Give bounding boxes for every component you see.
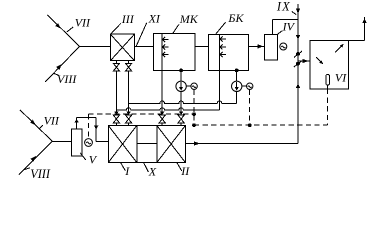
arrow VI outlet up (362, 18, 366, 23)
control line riser to VI sensor (dashed) (327, 89, 329, 125)
tank divider right (156, 126, 158, 163)
apparatus III box (110, 34, 134, 61)
motor M1 under MK (191, 83, 197, 89)
wire top input VII diagonal (48, 15, 80, 46)
control line D horizontal (dashed) (194, 124, 328, 126)
apparatus III cross (110, 34, 134, 61)
tank divider left (136, 126, 138, 163)
junction tick and node on IX riser lower (294, 61, 302, 67)
stem drop 3 into tank (161, 123, 163, 126)
wire bottom input VII diagonal (20, 110, 52, 141)
label I (121, 163, 131, 178)
temperature sensor in VI (326, 74, 330, 89)
wire V riser top horizontal (77, 117, 97, 119)
svg-text:IX: IX (276, 0, 291, 14)
valve V4 on drop 2 (126, 115, 132, 123)
BK inlet arrow 2 (220, 44, 226, 49)
pump P2 under BK (232, 81, 242, 91)
label VII (top) (67, 16, 91, 32)
label BK (215, 11, 244, 35)
label XI (pipe between III and MK) (136, 11, 161, 46)
node MK bottom outlet (179, 69, 183, 73)
wire bottom junction to pasteurizer V (52, 140, 71, 142)
MK inlet arrow 1 (163, 37, 169, 42)
svg-text:МК: МК (179, 12, 199, 26)
wire branch into VI with arrow (298, 59, 310, 63)
label VI (335, 71, 347, 85)
valve V3 on drop 1 (113, 115, 119, 123)
wire pump P1 to motor M1 (186, 85, 191, 87)
label MK (173, 12, 199, 33)
valve V6 on drop 4 (178, 115, 184, 123)
label IX (276, 0, 296, 15)
wire BK to IV with arrow (249, 44, 265, 48)
arrow drop 3 (160, 112, 165, 115)
section X midline (137, 142, 157, 144)
control line B vertical from motor M2 (dashed) (249, 90, 251, 126)
MK inlet arrow 2 (163, 44, 169, 49)
wire top input VIII diagonal (45, 46, 79, 82)
flow arrow down 1 on IX riser (296, 9, 300, 14)
tank II cross (157, 126, 186, 163)
node control junction A-C (192, 112, 196, 116)
label VII (bottom) (39, 114, 60, 129)
apparatus IV box (264, 34, 277, 60)
svg-text:VI: VI (335, 71, 347, 85)
svg-text:III: III (121, 12, 135, 26)
wire bottom input VIII diagonal (19, 141, 52, 174)
svg-text:VII: VII (75, 16, 91, 30)
wire pump P2 down to return bus 1 (236, 92, 238, 104)
flow arrow on bottom VIII line (31, 156, 37, 162)
svg-text:VIII: VIII (57, 72, 77, 86)
svg-text:XI: XI (148, 11, 161, 25)
svg-text:II: II (180, 164, 190, 178)
flow arrow on bottom VII line (30, 120, 36, 126)
label VIII (bottom) (24, 167, 51, 181)
wire drop 3 (from MK partition) (161, 70, 163, 112)
wire main riser IX (297, 4, 299, 144)
wire MK to BK (195, 45, 208, 47)
junction tick and node on IX riser upper (294, 51, 302, 57)
arrow drop 1 (114, 112, 119, 115)
wire return bus 1 (from BK pump, hops over drops) (129, 101, 237, 103)
apparatus BK box (209, 35, 249, 71)
arrow drop 2 (126, 112, 131, 115)
wire tank II output with arrow (185, 141, 298, 145)
apparatus V box (72, 129, 82, 156)
valve under III right stem (128, 61, 130, 64)
label III (111, 12, 135, 34)
motor M2 under BK (247, 83, 253, 89)
VI agitator stroke right (335, 44, 344, 53)
wire V feed into tank I (96, 140, 108, 142)
stem drop 1 into tank (115, 123, 117, 126)
wire VI outlet top (349, 17, 365, 41)
control line C horizontal (dashed) (89, 113, 195, 115)
stem drop 2 into tank (128, 123, 130, 126)
flow arrow up on IX riser (296, 83, 300, 88)
node control junction B-D (248, 123, 252, 127)
wire BK partition down to return bus 2 (219, 70, 221, 110)
wire III to MK (134, 45, 153, 47)
node control corner A-D (192, 123, 196, 127)
MK inner partition (161, 33, 163, 70)
wire MK outlet down to pump (180, 70, 182, 81)
svg-text:IV: IV (282, 19, 296, 33)
arrow on V feed line (94, 126, 98, 130)
valve under III left stem (115, 61, 117, 64)
svg-text:X: X (148, 164, 157, 178)
motor M4 of IV (280, 43, 287, 50)
control line A vertical from motor M1 (dashed) (193, 90, 195, 126)
wire V feed down to tank I (95, 118, 97, 142)
node top junction to apparatus III (80, 45, 111, 47)
tank I cross (108, 126, 137, 163)
flow arrow on top VIII line (56, 64, 62, 70)
flow arrow down 2 on IX riser (296, 35, 300, 40)
label X (144, 163, 157, 179)
svg-text:VII: VII (44, 114, 60, 128)
motor M3 of V (85, 139, 93, 147)
label II (177, 163, 190, 178)
control line drop to motor M3 (dashed) (88, 114, 90, 138)
flow arrow on top VII line (55, 23, 61, 29)
wire drop 1 (from III left valve) (115, 71, 117, 112)
apparatus VI box (310, 41, 349, 89)
wire return bus 2 (from BK partition, hops over drops) (116, 108, 219, 110)
pump P1 under MK (176, 81, 186, 91)
apparatus MK box (153, 33, 195, 70)
node BK bottom outlet (235, 69, 239, 73)
BK inlet arrow 3 (220, 52, 226, 57)
VI agitator stroke left (316, 57, 323, 64)
valve V1 under III (113, 63, 119, 71)
label V (80, 153, 98, 167)
svg-text:БК: БК (227, 11, 244, 25)
tank block outer box (108, 126, 185, 163)
BK inner partition upper (219, 35, 221, 71)
wire drop 2 (from III right valve) (128, 71, 130, 112)
label VIII (top) (54, 72, 78, 86)
MK inlet arrow 3 (163, 52, 169, 57)
stem drop 4 into tank (180, 123, 182, 126)
wire pump P1 down (drop 4) (180, 92, 182, 113)
svg-text:VIII: VIII (30, 167, 51, 181)
wire BK outlet down to pump (236, 70, 238, 81)
wire pump P2 to motor M2 (242, 85, 247, 87)
valve V2 under III (126, 63, 132, 71)
arrow on V riser (74, 119, 78, 123)
wire V riser up (76, 118, 78, 130)
label IV (277, 19, 296, 35)
wire IV riser (273, 20, 298, 35)
arrow drop 4 (179, 112, 184, 115)
valve V5 on drop 3 (159, 115, 165, 123)
BK inlet arrow 1 (220, 37, 226, 42)
